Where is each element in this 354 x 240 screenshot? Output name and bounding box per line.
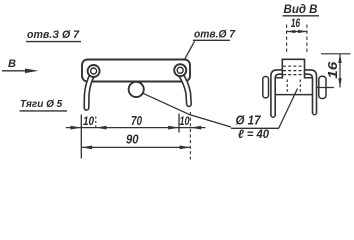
right tie rod <box>181 75 189 105</box>
note shelf line <box>231 127 279 129</box>
strap inner top hidden behind tab (dashed) <box>282 73 304 75</box>
dimension extension line 2 dashed (x=95.8) <box>95 117 97 128</box>
right hole ring Ø7 <box>174 64 186 76</box>
svg-text:16: 16 <box>291 16 301 30</box>
leader from Ø17 hole to note shelf <box>143 93 231 127</box>
label "Тяги Ø5" left <box>20 99 68 111</box>
hidden line row in tab <box>283 65 304 67</box>
svg-text:Тяги Ø 5: Тяги Ø 5 <box>20 99 63 110</box>
bar bottom edge <box>275 94 312 96</box>
svg-text:ℓ = 40: ℓ = 40 <box>238 127 269 141</box>
strap inner contour <box>275 74 312 116</box>
left hole ring Ø7 <box>88 65 100 77</box>
main view: plate (rounded rectangle) <box>82 60 190 82</box>
svg-text:Ø 17: Ø 17 <box>236 113 262 127</box>
view-direction marker B with arrow (left) <box>2 58 39 73</box>
dimension extension line left (x=81.3) <box>80 115 82 159</box>
left tie rod <box>87 75 93 108</box>
left ring edge-on <box>263 77 269 98</box>
svg-text:10: 10 <box>180 116 190 128</box>
label "отв. Ø7" top-middle <box>193 28 236 40</box>
strap top edges hidden behind tab (dashed) <box>283 70 304 72</box>
view label "Вид В" top-right <box>283 2 320 16</box>
leader from shelf to side view <box>279 89 298 129</box>
dimension extension line 3 (x=179) <box>178 114 180 133</box>
right leg bottom cap <box>313 114 317 115</box>
strap outer top hidden behind tab (dashed) <box>282 69 304 71</box>
top dimension 16 over tab <box>287 16 307 54</box>
left leg bottom cap <box>271 116 275 117</box>
svg-text:отв.Ø 7: отв.Ø 7 <box>194 28 236 40</box>
dimension line 10/70/10 <box>66 126 206 130</box>
right ring edge-on <box>319 76 326 98</box>
label "отв.3 Ø7" top-left <box>26 29 81 41</box>
hidden tab continuation inside bar (dashed verticals) <box>286 80 288 94</box>
tab (upper lug), visible part <box>282 59 304 78</box>
svg-text:Вид В: Вид В <box>284 2 318 16</box>
dimension line 90 <box>81 146 190 150</box>
leader from top-middle label to right hole <box>185 41 195 59</box>
svg-text:16: 16 <box>325 61 340 79</box>
right dimension 16 (vertical) <box>317 54 351 88</box>
center hole Ø17 <box>129 82 144 97</box>
svg-text:В: В <box>8 58 16 70</box>
strap outer contour <box>271 70 317 116</box>
svg-text:90: 90 <box>126 133 139 147</box>
svg-text:10: 10 <box>83 116 95 128</box>
dimension extension line right dashed (x=190.4) <box>189 112 191 160</box>
svg-text:70: 70 <box>131 114 142 128</box>
svg-text:отв.З Ø 7: отв.З Ø 7 <box>27 29 80 41</box>
plate seen edge-on (bar) top edge <box>275 77 312 79</box>
